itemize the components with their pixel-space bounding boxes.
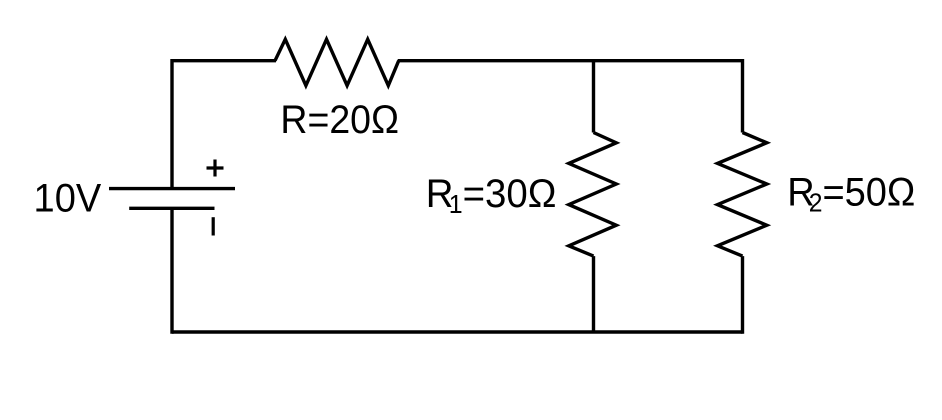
label R=20 ohm value bbox=[280, 98, 399, 142]
svg-text:R2=50Ω: R2=50Ω bbox=[787, 170, 915, 217]
wire R2 branch bottom vertical segment (R2 down to bottom wire) bbox=[741, 256, 744, 334]
wire left vertical segment (top wire to battery + plate) bbox=[170, 59, 173, 189]
wire top-left horizontal segment (battery + to resistor R) bbox=[172, 59, 276, 62]
svg-text:10V: 10V bbox=[34, 177, 102, 221]
resistor R (20 ohm, series, horizontal zigzag) bbox=[275, 39, 399, 85]
resistor R1 (30 ohm, vertical zigzag) bbox=[569, 133, 617, 257]
node A (junction of R, R1, R2 top) bbox=[592, 59, 595, 62]
wire R2 branch top vertical segment (top-right corner down to R2) bbox=[741, 59, 744, 133]
wire R1 branch bottom vertical segment (R1 down to bottom wire) bbox=[592, 256, 595, 332]
wire left vertical segment (battery - plate to bottom wire) bbox=[170, 208, 173, 333]
label R2=50 ohm value bbox=[787, 170, 915, 217]
wire R1 branch top vertical segment (node A down to R1) bbox=[592, 61, 595, 133]
label R1=30 ohm value bbox=[426, 172, 557, 219]
wire top horizontal segment (R to node A and R2 branch) bbox=[398, 59, 743, 62]
battery V1 10V: positive plate (long) bbox=[109, 187, 235, 190]
battery V1 10V: negative plate (short) bbox=[129, 207, 214, 210]
battery polarity minus tick bbox=[212, 217, 215, 235]
svg-text:R1=30Ω: R1=30Ω bbox=[426, 172, 557, 219]
svg-text:R=20Ω: R=20Ω bbox=[280, 98, 399, 142]
wire bottom horizontal segment bbox=[172, 330, 743, 333]
battery polarity plus sign bbox=[207, 160, 224, 177]
label 10V source value bbox=[34, 177, 102, 221]
resistor R2 (50 ohm, vertical zigzag) bbox=[718, 133, 767, 257]
